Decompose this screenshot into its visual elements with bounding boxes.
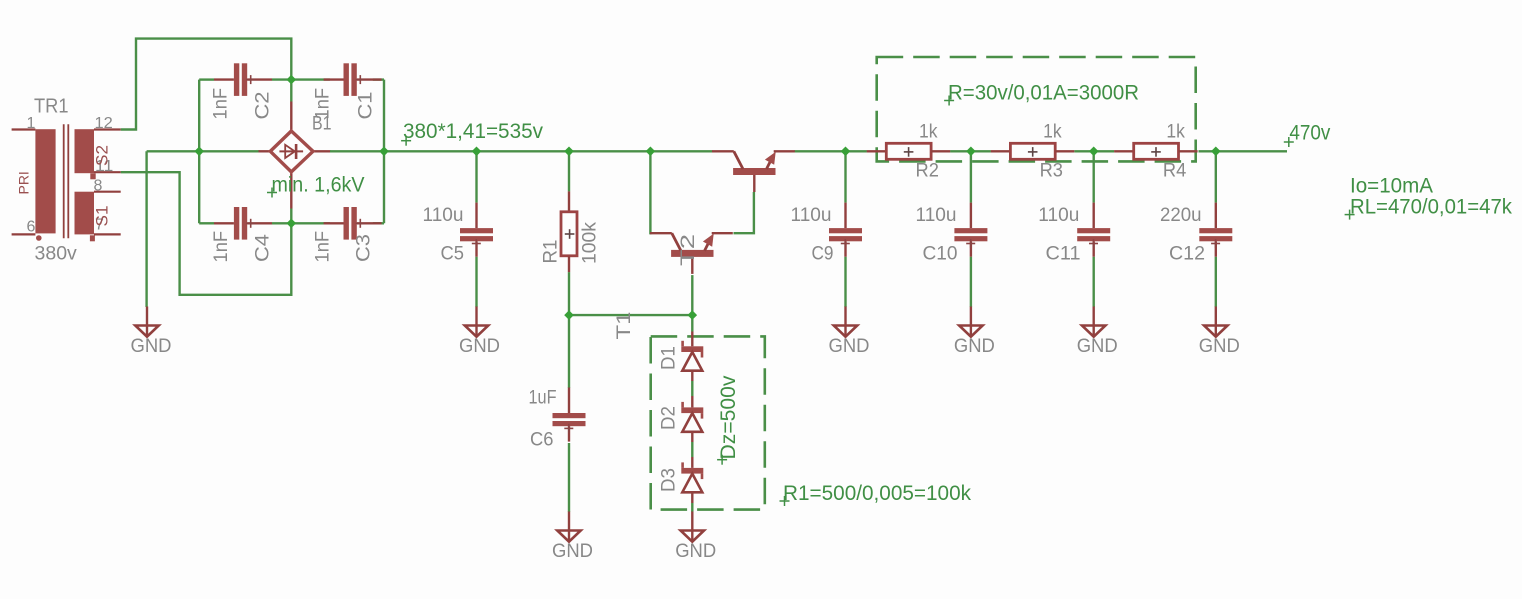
svg-text:C10: C10 [923,243,958,265]
label S1 [94,206,112,227]
label 100k [579,222,601,264]
label D2 [658,406,680,430]
svg-text:R4: R4 [1163,160,1187,182]
wire main rail bridge to T1 [330,150,712,152]
net label 380*1,41=535v [401,120,543,146]
svg-text:220u: 220u [1160,204,1202,226]
svg-text:110u: 110u [791,204,832,226]
bridge B1 left pin [259,150,272,152]
TR1 pin 12 [94,128,121,130]
svg-text:C9: C9 [812,243,834,265]
svg-text:C3: C3 [353,234,375,262]
label PRI [16,171,32,194]
label R4 [1163,160,1187,182]
wire C6 branch [568,315,570,512]
label C5 [441,243,465,265]
svg-text:S1: S1 [94,206,112,227]
resistor R3 [991,143,1075,159]
TR1 pin 8 [94,191,121,193]
label 1k of R3 [1043,121,1062,143]
capacitor C4 [214,207,272,240]
wire T2 collector drop [650,151,651,233]
dashed box around zener diodes D1 D2 D3 [651,336,765,509]
svg-text:C11: C11 [1046,243,1081,265]
ground under zener chain [681,512,704,542]
svg-text:380*1,41=535v: 380*1,41=535v [403,120,543,143]
label GND 2 [459,335,500,357]
label 220u of C12 [1160,204,1202,226]
wire right column top cap row to rail [383,80,385,152]
TR1 polarity dot S2 [90,173,95,179]
svg-text:1nF: 1nF [312,88,334,120]
label T2 [677,234,699,266]
wire main rail R2 to R3 [950,150,991,152]
label C4 [252,234,274,262]
dashed box around R2 R3 R4 [877,57,1196,161]
wire C11 branch [1092,151,1094,307]
transistor T2 [650,233,733,274]
capacitor C10 [954,203,987,257]
wire rail left of bridge to GND drop [147,151,260,307]
TR1 pin 6 [12,233,36,235]
zener diode D1 [681,332,703,382]
svg-text:GND: GND [131,335,172,357]
TR1 pin number 7 [95,217,104,234]
transformer TR1 core [64,124,69,238]
svg-text:C2: C2 [252,92,274,120]
label C12 [1169,243,1205,265]
svg-text:110u: 110u [916,204,957,226]
resistor R4 [1114,143,1198,159]
capacitor C12 [1199,203,1232,257]
svg-text:C1: C1 [355,92,377,120]
svg-text:380v: 380v [35,243,78,265]
label 110u of C11 [1038,204,1079,226]
svg-text:C4: C4 [252,234,274,262]
label 1nF of C2 [210,88,232,120]
svg-text:R2: R2 [916,160,939,182]
ground under C10 [959,307,982,337]
svg-text:470v: 470v [1289,122,1330,145]
TR1 pin number 6 [27,219,36,236]
svg-text:GND: GND [675,540,716,562]
svg-text:D1: D1 [658,346,680,370]
label C10 [923,243,958,265]
wire main rail R3 to R4 [1074,150,1114,152]
note min. 1,6kV [267,174,365,198]
svg-text:GND: GND [1077,335,1118,357]
label 110u of C5 [423,204,464,226]
svg-text:RL=470/0,01=47k: RL=470/0,01=47k [1350,195,1512,218]
svg-text:C12: C12 [1169,243,1205,265]
label R1 name [540,240,562,264]
label GND 6 [954,335,995,357]
svg-text:PRI: PRI [16,171,32,194]
svg-text:S2: S2 [94,145,112,166]
label C9 [812,243,834,265]
label GND 5 [829,335,870,357]
TR1 polarity dot S1 [90,235,95,241]
zener diode D2 [681,396,703,442]
label T1 [613,312,635,340]
capacitor C9 [829,203,862,257]
label TR1 [34,96,69,118]
wire from TR1 pin 12 up and over to bridge top [121,39,292,130]
capacitor C2 [214,63,272,96]
svg-text:T2: T2 [677,234,699,266]
svg-text:R=30v/0,01A=3000R: R=30v/0,01A=3000R [948,82,1139,105]
wire C5 branch [475,151,477,307]
label 1nF of C3 [312,231,334,263]
svg-text:GND: GND [552,540,593,562]
bridge rectifier B1 diamond [270,131,313,172]
ground under TR1 [135,307,158,337]
ground under C11 [1082,307,1105,337]
svg-text:1nF: 1nF [210,88,232,120]
svg-text:1nF: 1nF [210,231,232,263]
svg-text:min. 1,6kV: min. 1,6kV [272,174,365,197]
ground under C12 [1204,307,1227,337]
TR1 pin 1 [12,128,36,130]
wire right column rail to bottom cap row [383,151,385,223]
label 110u of C10 [916,204,957,226]
capacitor C1 [324,63,382,96]
label GND 8 [1199,335,1240,357]
label 1k of R2 [919,121,938,143]
note RL=470/0,01=47k [1345,195,1513,219]
resistor R1 [561,191,577,272]
label C11 [1046,243,1081,265]
svg-text:R1=500/0,005=100k: R1=500/0,005=100k [783,482,971,505]
TR1 pin number 11 [95,158,113,175]
note R1=500/0,005=100k [780,482,972,506]
TR1 pin number 8 [94,178,103,195]
bridge rectifier B1 inner diode [279,144,303,159]
svg-text:1k: 1k [919,121,938,143]
capacitor C11 [1077,203,1110,257]
wire TR1 pin 11 loop to bridge bottom [121,172,292,295]
label 1nF of C1 [312,88,334,120]
svg-text:1: 1 [27,115,36,132]
svg-text:GND: GND [829,335,870,357]
svg-text:6: 6 [27,219,36,236]
svg-text:GND: GND [954,335,995,357]
transformer TR1 secondary winding S1 [75,192,95,235]
zener diode D3 [681,457,703,503]
note Io=10mA [1350,174,1433,197]
TR1 pin 7 [94,233,121,235]
capacitor C3 [324,207,382,240]
svg-text:GND: GND [459,335,500,357]
label D3 [658,468,680,492]
svg-text:100k: 100k [579,222,601,264]
label D1 [658,346,680,370]
svg-text:1k: 1k [1166,121,1185,143]
label B1 [312,113,332,135]
svg-text:TR1: TR1 [34,96,69,118]
label R2 [916,160,939,182]
svg-text:Dz=500v: Dz=500v [717,375,740,460]
svg-text:12: 12 [95,115,113,132]
label S2 [94,145,112,166]
wire T2 base drop [691,275,693,331]
wire mid node horizontal [569,314,692,316]
wire C9 branch [844,151,846,307]
svg-text:D2: D2 [658,406,680,430]
wire bridge bottom pin [290,172,292,224]
svg-text:1nF: 1nF [312,231,334,263]
svg-text:Io=10mA: Io=10mA [1350,174,1433,197]
label C2 [252,92,274,120]
label C1 [355,92,377,120]
transformer TR1 secondary winding S2 [75,129,95,173]
capacitor C5 [460,203,493,257]
svg-text:1k: 1k [1043,121,1062,143]
label GND 7 [1077,335,1118,357]
bridge B1 right pin [313,150,331,152]
TR1 pin number 1 [27,115,36,132]
svg-text:T1: T1 [613,312,635,340]
wire R1 branch top [568,151,570,191]
note Dz=500v [717,375,740,465]
TR1 pin 11 [94,171,121,173]
label C6 [530,429,554,451]
label GND 1 [131,335,172,357]
svg-text:8: 8 [94,178,103,195]
wire bridge top pin [290,80,292,132]
label R3 [1040,160,1063,182]
svg-text:R1: R1 [540,240,562,264]
resistor R2 [867,143,951,159]
svg-text:C6: C6 [530,429,554,451]
label C3 [353,234,375,262]
capacitor C6 [553,388,586,442]
net label 470v [1284,122,1331,147]
wire bottom capacitor row [199,222,384,224]
TR1 polarity dot primary [36,235,42,241]
wire C12 branch [1215,151,1217,307]
svg-text:D3: D3 [658,468,680,492]
label 1nF of C4 [210,231,232,263]
transformer TR1 primary winding [35,129,55,233]
wire left column top cap row to rail [198,80,200,152]
wire R1 branch bottom [568,272,570,315]
wire T1 base to T2 emitter [734,192,754,233]
label 1k of R4 [1166,121,1185,143]
wire left column rail to bottom cap row [198,151,200,223]
ground under C5 [465,307,488,337]
wire C10 branch [970,151,972,307]
label 380v [35,243,78,265]
svg-text:110u: 110u [1038,204,1079,226]
svg-text:GND: GND [1199,335,1240,357]
wire main rail R4 to output [1199,150,1288,152]
label 1uF [529,387,557,409]
label 110u of C9 [791,204,832,226]
ground under C9 [834,307,857,337]
wire top capacitor row [199,78,384,80]
svg-text:R3: R3 [1040,160,1063,182]
transistor T1 [712,151,795,192]
wire main rail T1 to R2 [794,150,867,152]
svg-text:110u: 110u [423,204,464,226]
svg-text:1uF: 1uF [529,387,557,409]
label GND 4 [675,540,716,562]
label GND 3 [552,540,593,562]
wire zener chain segments [691,381,693,512]
ground under C6 [557,512,580,542]
TR1 pin number 12 [95,115,113,132]
svg-text:C5: C5 [441,243,465,265]
note R=30v/0,01A=3000R [944,82,1139,106]
